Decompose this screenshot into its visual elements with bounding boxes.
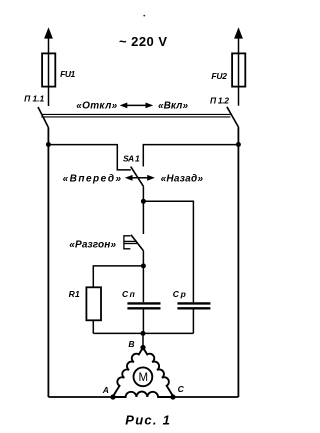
svg-text:С р: С р	[173, 289, 186, 299]
wire right rail	[237, 127, 239, 397]
svg-text:~ 220 V: ~ 220 V	[119, 34, 167, 49]
wire to SA1 right contact	[143, 145, 238, 167]
node C	[170, 394, 175, 399]
capacitor Cр	[177, 303, 210, 308]
wire to SA1 left contact	[48, 145, 130, 170]
wire to motor B	[142, 333, 144, 347]
svg-text:М: М	[139, 372, 149, 384]
svg-text:FU2: FU2	[211, 71, 227, 81]
svg-text:SA 1: SA 1	[123, 153, 140, 163]
fuse FU1	[42, 53, 55, 106]
wire branch to Cp	[143, 201, 193, 302]
fuse FU2	[232, 53, 245, 105]
svg-text:Рис. 1: Рис. 1	[125, 412, 170, 427]
wire R1 to bottom	[92, 320, 94, 333]
arrow Откл-Вкл	[120, 103, 154, 109]
svg-text:«Откл»: «Откл»	[76, 101, 117, 112]
node bottom bus	[141, 331, 146, 336]
svg-text:А: А	[102, 385, 109, 395]
node B	[140, 345, 145, 350]
svg-text:R1: R1	[69, 289, 80, 299]
wire Cп to bottom	[142, 310, 144, 334]
motor M circle	[134, 367, 153, 386]
capacitor Cп	[127, 303, 160, 308]
node right	[236, 142, 241, 147]
node center top	[141, 199, 146, 204]
svg-text:С п: С п	[122, 289, 136, 299]
svg-text:«Разгон»: «Разгон»	[69, 239, 116, 250]
switch П1.1 blade	[38, 107, 48, 128]
mechanical link bar	[41, 114, 230, 117]
wire Разгон to node	[142, 251, 144, 266]
svg-text:«Назад»: «Назад»	[161, 173, 204, 184]
wire SA1 to node	[142, 186, 144, 201]
wire bottom right	[173, 396, 238, 398]
svg-text:В: В	[128, 339, 134, 349]
svg-text:«Вперед»: «Вперед»	[63, 174, 122, 185]
node center mid	[141, 263, 146, 268]
wire to R1	[93, 266, 143, 287]
wire bottom bus	[93, 332, 193, 334]
svg-text:П 1.2: П 1.2	[210, 96, 229, 106]
svg-text:П 1.1: П 1.1	[24, 93, 44, 103]
wire node to Cп	[142, 266, 144, 302]
pushbutton Разгон actuator	[124, 236, 137, 249]
arrow Вперед-Назад	[125, 175, 155, 181]
svg-text:С: С	[178, 384, 185, 394]
switch Разгон blade	[131, 235, 144, 251]
node A	[110, 394, 115, 399]
wire Cр to bottom	[192, 310, 194, 334]
node left	[46, 142, 51, 147]
svg-text:FU1: FU1	[60, 69, 75, 79]
supply terminal arrow right	[234, 27, 243, 53]
wire bottom left	[48, 396, 113, 398]
switch SA1 blade	[131, 167, 144, 187]
resistor R1	[86, 287, 101, 320]
supply terminal arrow left	[44, 27, 53, 53]
wire node to Разгон contact	[142, 201, 144, 234]
motor windings triangle	[113, 348, 174, 397]
svg-text:«Вкл»: «Вкл»	[158, 101, 188, 112]
wire left rail	[47, 128, 49, 398]
speck	[143, 15, 145, 17]
switch П1.2 blade	[227, 107, 239, 127]
